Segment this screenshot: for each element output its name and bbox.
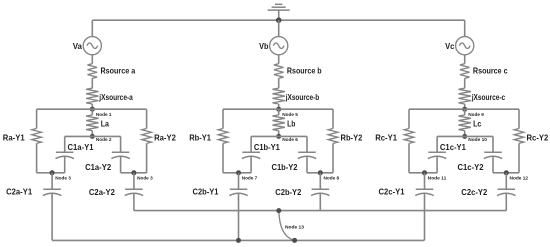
- capacitor C2a-Y2 with leads down to Y2 bus: [89, 173, 143, 211]
- inductor La: [86, 109, 109, 136]
- svg-text:Lb: Lb: [287, 119, 295, 129]
- resistor Rsource c: [460, 64, 508, 79]
- inductor Lc: [459, 109, 482, 136]
- wire phase b block top rail: [223, 108, 333, 110]
- capacitor C1c-Y1 with leads: [425, 136, 467, 172]
- svg-text:Rsource c: Rsource c: [473, 66, 508, 76]
- wire jXsource-c to node 9: [464, 104, 466, 109]
- svg-text:Lc: Lc: [473, 119, 481, 129]
- svg-text:jXsource-a: jXsource-a: [99, 92, 133, 102]
- capacitor C1b-Y1 with leads: [239, 136, 281, 172]
- svg-text:Node 1: Node 1: [96, 112, 112, 117]
- wire from top rail down to Vb source: [278, 20, 280, 36]
- svg-text:Vc: Vc: [445, 41, 455, 51]
- inductor Lb: [273, 109, 296, 136]
- svg-text:Node 3: Node 3: [55, 176, 71, 181]
- svg-text:Node 13: Node 13: [285, 224, 304, 229]
- resistor Rb-Y1 with leads: [189, 109, 238, 173]
- AC voltage source Vb: [259, 37, 288, 55]
- svg-text:Node 11: Node 11: [428, 176, 447, 181]
- resistor Rsource b: [274, 64, 322, 79]
- wire source bottom to Rsource b: [278, 55, 280, 64]
- node 8 junction dot and label: [318, 170, 340, 180]
- svg-text:C2b-Y2: C2b-Y2: [275, 187, 301, 197]
- svg-text:Vb: Vb: [259, 41, 268, 51]
- svg-text:C1c-Y2: C1c-Y2: [458, 162, 484, 172]
- reactor jXsource-a: [86, 88, 133, 104]
- svg-text:Rb-Y1: Rb-Y1: [189, 133, 211, 143]
- wire Y1 bottom bus: [52, 239, 424, 241]
- capacitor C2c-Y2 with leads down to Y2 bus: [461, 173, 515, 211]
- svg-text:C2c-Y1: C2c-Y1: [379, 187, 405, 197]
- svg-text:C1a-Y2: C1a-Y2: [85, 162, 111, 172]
- resistor Rc-Y2 with leads: [506, 109, 548, 173]
- svg-text:Node 2: Node 2: [96, 137, 112, 142]
- svg-text:C1b-Y2: C1b-Y2: [272, 162, 298, 172]
- node 5 junction dot and label: [276, 107, 298, 117]
- capacitor C2b-Y2 with leads down to Y2 bus: [275, 173, 329, 211]
- node 13 curved wire joining the two buses, junction dots and label: [276, 208, 304, 243]
- node 1 junction dot and label: [90, 107, 112, 117]
- svg-text:Node 5: Node 5: [282, 112, 298, 117]
- junction dot where C2b-Y1 meets Y1 bus: [236, 238, 241, 243]
- node 3 junction dot and label: [50, 170, 72, 180]
- svg-text:C1a-Y1: C1a-Y1: [68, 142, 94, 152]
- resistor Rb-Y2 with leads: [320, 109, 362, 173]
- svg-text:Rb-Y2: Rb-Y2: [341, 133, 363, 143]
- capacitor C2c-Y1 with leads down to Y1 bus: [379, 173, 434, 241]
- svg-text:jXsource-b: jXsource-b: [285, 92, 319, 102]
- svg-text:Node 7: Node 7: [242, 176, 258, 181]
- wire from top rail down to Va source: [91, 20, 93, 36]
- svg-text:Ra-Y2: Ra-Y2: [154, 133, 176, 143]
- reactor jXsource-c: [459, 88, 506, 104]
- wire Rsource a to jXsource-a: [91, 78, 93, 88]
- svg-text:Rsource b: Rsource b: [287, 66, 322, 76]
- wire source bottom to Rsource c: [464, 55, 466, 64]
- resistor Rsource a: [88, 64, 136, 79]
- wire phase a block top rail: [37, 108, 147, 110]
- wire Rsource b to jXsource-b: [278, 78, 280, 88]
- node 4 junction dot and label: [131, 170, 153, 180]
- svg-text:Rsource a: Rsource a: [101, 66, 136, 76]
- node 2 junction dot and label: [90, 134, 112, 142]
- svg-text:C2b-Y1: C2b-Y1: [193, 187, 219, 197]
- resistor Rc-Y1 with leads: [375, 109, 424, 173]
- svg-text:jXsource-c: jXsource-c: [471, 92, 505, 102]
- capacitor C1b-Y2 with leads: [272, 136, 321, 172]
- node 11 junction dot and label: [422, 170, 447, 180]
- wire top rail connecting the three sources: [92, 19, 464, 21]
- capacitor C2b-Y1 with leads down to Y1 bus: [193, 173, 248, 241]
- capacitor C1a-Y2 with leads: [85, 136, 134, 172]
- node 7 junction dot and label: [236, 170, 258, 180]
- node 10 junction dot and label: [462, 134, 487, 142]
- svg-text:C1c-Y1: C1c-Y1: [440, 142, 466, 152]
- capacitor C1a-Y1 with leads: [52, 136, 94, 172]
- svg-text:Node 10: Node 10: [468, 137, 487, 142]
- capacitor C2a-Y1 with leads down to Y1 bus: [6, 173, 61, 241]
- svg-text:Va: Va: [73, 41, 83, 51]
- svg-text:C2a-Y2: C2a-Y2: [89, 187, 115, 197]
- resistor Ra-Y1 with leads: [3, 109, 52, 173]
- svg-text:C2c-Y2: C2c-Y2: [461, 187, 487, 197]
- wire jXsource-a to node 1: [91, 104, 93, 109]
- resistor Ra-Y2 with leads: [134, 109, 176, 173]
- AC voltage source Va: [73, 37, 102, 55]
- AC voltage source Vc: [445, 37, 474, 55]
- junction dot at ground on top rail: [276, 17, 282, 23]
- reactor jXsource-b: [273, 88, 320, 104]
- ground: [268, 4, 290, 20]
- svg-text:Node 12: Node 12: [510, 176, 529, 181]
- wire phase c block top rail: [409, 108, 519, 110]
- capacitor C1c-Y2 with leads: [458, 136, 507, 172]
- svg-text:Node 8: Node 8: [324, 176, 340, 181]
- svg-text:Ra-Y1: Ra-Y1: [3, 133, 25, 143]
- svg-text:Node 3: Node 3: [137, 176, 153, 181]
- wire jXsource-b to node 5: [278, 104, 280, 109]
- svg-text:Rc-Y2: Rc-Y2: [527, 133, 549, 143]
- svg-text:C2a-Y1: C2a-Y1: [6, 187, 32, 197]
- wire source bottom to Rsource a: [91, 55, 93, 64]
- node 6 junction dot and label: [276, 134, 298, 142]
- svg-text:Node 6: Node 6: [282, 137, 298, 142]
- wire from top rail down to Vc source: [464, 20, 466, 36]
- svg-text:Rc-Y1: Rc-Y1: [375, 133, 397, 143]
- svg-text:C1b-Y1: C1b-Y1: [254, 142, 280, 152]
- node 9 junction dot and label: [462, 107, 484, 117]
- wire Rsource c to jXsource-c: [464, 78, 466, 88]
- svg-text:La: La: [101, 119, 109, 129]
- wire Y2 bottom bus: [134, 210, 506, 212]
- node 12 junction dot and label: [504, 170, 529, 180]
- svg-text:Node 9: Node 9: [468, 112, 484, 117]
